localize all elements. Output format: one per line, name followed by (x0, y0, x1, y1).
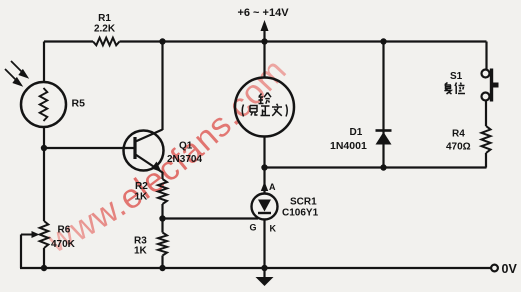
wire S1 to R4 (485, 101, 487, 127)
wire bell bottom lead (263, 137, 265, 168)
bell (see text) (235, 78, 294, 137)
resistor R2 (158, 179, 167, 204)
wire SCR anode lead (263, 168, 265, 195)
svg-text:470Ω: 470Ω (446, 142, 471, 153)
svg-text:D1: D1 (350, 127, 363, 138)
svg-text:Q1: Q1 (179, 141, 193, 152)
node bell bottom junction (261, 164, 267, 170)
node gate tap junction (159, 215, 165, 221)
svg-text:S1: S1 (450, 71, 463, 82)
wire SCR cathode lead (263, 220, 265, 269)
diode D1 (376, 131, 392, 145)
wire R2 to R3 (161, 204, 163, 233)
svg-text:2.2K: 2.2K (94, 24, 116, 35)
svg-text:R1: R1 (98, 13, 111, 24)
node left column bottom junction (41, 265, 47, 271)
svg-text:R5: R5 (72, 98, 86, 110)
wire R3 to bottom rail (161, 256, 163, 269)
wire gate wire to SCR1 (163, 217, 259, 219)
wire mid rail (bell bottom to R4 branch) (265, 166, 487, 168)
resistor R3 (158, 233, 167, 256)
resistor R1 (93, 38, 120, 46)
svg-text:2N3704: 2N3704 (167, 154, 202, 165)
svg-text:R4: R4 (452, 129, 465, 140)
node power entry junction (261, 38, 267, 44)
node SCR cathode / rail junction (261, 265, 267, 271)
label bell 铃 (see text) (259, 93, 272, 104)
wire left column (R5 bottom to base node) (43, 127, 45, 148)
node D1 bottom junction (380, 164, 386, 170)
potentiometer R6 (40, 221, 49, 248)
node top rail / collector junction (159, 38, 165, 44)
light arrows into R5 (5, 61, 27, 85)
node base tap junction (41, 145, 47, 151)
svg-text:SCR1: SCR1 (290, 197, 317, 208)
wire left column (R6 to bottom rail) (43, 248, 45, 268)
svg-text:1K: 1K (135, 192, 149, 203)
wire R6 wiper return (20, 235, 22, 269)
ground (256, 268, 274, 286)
wire R4 to mid rail (485, 153, 487, 168)
wire top rail left segment (44, 40, 93, 42)
svg-text:C106Y1: C106Y1 (282, 208, 319, 219)
node D1 top junction (380, 38, 386, 44)
transistor Q1 (124, 130, 164, 173)
svg-text:R6: R6 (58, 225, 71, 236)
svg-text:A: A (269, 182, 276, 192)
wire supply stub with arrow (263, 27, 265, 42)
wire top rail right segment (120, 40, 487, 42)
wire left column upper (top rail to R5) (43, 42, 45, 83)
wire Q1 emitter to R2 (161, 172, 163, 179)
wire Q1 collector column (161, 42, 163, 131)
wire base wire to Q1 (44, 147, 134, 149)
wire D1 column (382, 42, 384, 168)
wire top rail drop to S1 (485, 42, 487, 70)
resistor R4 (482, 126, 491, 153)
svg-text:470K: 470K (51, 239, 76, 250)
node 0V terminal (491, 265, 498, 272)
photoresistor R5 (21, 82, 66, 127)
svg-text:R2: R2 (135, 181, 148, 192)
wire bottom rail (0V) (20, 267, 491, 269)
thyristor SCR1 (252, 194, 278, 220)
label S1 复位 (reset) (445, 83, 466, 95)
wire bell top lead (263, 42, 265, 78)
wire left column (base node to R6) (43, 148, 45, 221)
svg-text:K: K (270, 224, 277, 234)
svg-text:+6 ~ +14V: +6 ~ +14V (237, 7, 289, 19)
svg-text:1K: 1K (134, 246, 148, 257)
svg-text:0V: 0V (502, 262, 518, 276)
svg-text:1N4001: 1N4001 (330, 140, 367, 152)
node R3 bottom junction (159, 265, 165, 271)
switch S1 (reset pushbutton) (482, 69, 499, 102)
svg-text:G: G (250, 223, 257, 233)
